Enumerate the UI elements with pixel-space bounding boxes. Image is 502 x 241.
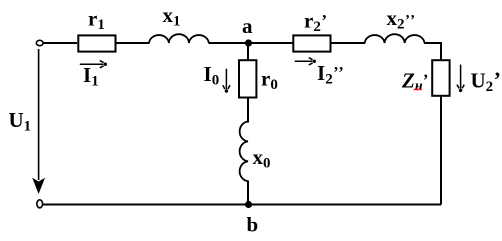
node b <box>245 201 252 208</box>
inductor x0 <box>240 122 248 182</box>
wire r2' to x2'' <box>331 42 366 44</box>
wire r0 to x0 <box>247 97 249 123</box>
svg-text:b: b <box>247 212 259 236</box>
node a <box>245 39 252 46</box>
load Zn' <box>432 60 449 96</box>
bottom wire <box>43 204 441 206</box>
wire node a to r0 <box>247 43 249 61</box>
wire x0 to node b <box>247 181 249 205</box>
wire terminal to r1 <box>43 42 77 44</box>
wire x1 to node a and on to r2' <box>209 42 294 44</box>
svg-text:a: a <box>242 14 253 38</box>
resistor r0 <box>239 60 256 97</box>
terminal top-left <box>36 40 43 45</box>
red spellcheck squiggle under н <box>414 89 421 91</box>
resistor r2' <box>293 35 330 51</box>
arrow I0 <box>223 69 230 90</box>
terminal bottom-left <box>37 200 43 208</box>
arrow I1 <box>80 61 104 68</box>
inductor x1 <box>149 34 209 43</box>
wire Zn' to bottom wire <box>440 96 442 205</box>
wire x2'' to top-right corner <box>424 43 441 61</box>
arrow I2'' <box>295 58 313 65</box>
resistor r1 <box>78 35 115 51</box>
inductor x2'' <box>365 34 425 43</box>
wire r1 to x1 <box>117 42 150 44</box>
arrow U2' <box>457 65 464 89</box>
arrow U1 <box>38 49 40 180</box>
